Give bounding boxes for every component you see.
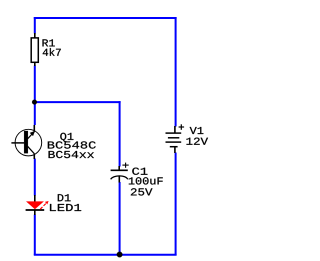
wire left vertical from top rail to R1 (34, 17, 36, 34)
wire Q1 collector to D1 anode (34, 159, 36, 196)
label C1 (132, 168, 147, 175)
wire R1 bottom to node A (34, 66, 36, 103)
wire bottom rail (34, 254, 177, 256)
wire top rail (34, 17, 177, 19)
value 12V (186, 138, 208, 145)
V1 plus sign (179, 124, 185, 130)
transistor Q1 (11, 125, 41, 159)
value BC54xx (49, 151, 94, 158)
battery V1 (166, 126, 182, 153)
node A junction dot (32, 100, 37, 105)
LED D1 (26, 195, 45, 215)
node B junction dot (C1 / bottom rail) (117, 252, 123, 258)
C1 plus sign (122, 163, 128, 168)
value 100uF (129, 177, 163, 184)
wire D1 cathode to bottom rail (34, 215, 36, 255)
value BC548C (48, 141, 96, 148)
label R1 (43, 39, 55, 46)
wire C1 branch vertical down to C1 top (119, 101, 121, 166)
value LED1 (50, 204, 81, 211)
wire battery V1 bottom (175, 153, 177, 256)
capacitor C1 (111, 166, 128, 183)
resistor R1 (31, 33, 38, 66)
D1 emission arrow (40, 201, 48, 209)
wire C1 bottom to bottom rail (119, 182, 121, 254)
wire node A horizontal to C1 branch (35, 101, 121, 103)
label D1 (58, 194, 71, 201)
value 25V (131, 188, 153, 195)
value 4k7 (43, 48, 61, 56)
wire node A down to Q1 emitter pin (34, 102, 36, 125)
wire battery V1 top (175, 17, 177, 127)
label Q1 (60, 133, 73, 142)
label V1 (190, 127, 204, 134)
